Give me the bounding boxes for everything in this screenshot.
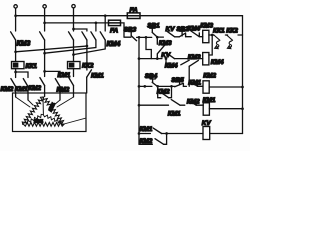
svg-text:КМ2: КМ2 xyxy=(187,99,200,106)
contact KM2 selfhold xyxy=(161,93,168,98)
svg-text:КМ3: КМ3 xyxy=(200,22,213,29)
node phaseC KM4 tap xyxy=(72,28,75,31)
contact KM4 NC rung1 xyxy=(191,31,199,37)
contactor KM4 pole2 xyxy=(91,32,96,40)
node bridge c3 xyxy=(43,70,46,73)
wire c1 into motor xyxy=(15,87,17,98)
svg-text:КМ4: КМ4 xyxy=(165,63,178,70)
contactor KM4 pole3 xyxy=(100,32,105,40)
svg-text:КМ1: КМ1 xyxy=(203,97,216,104)
wire KM4 pole1 reconnect to phase A xyxy=(16,40,87,52)
wire rung2 xyxy=(139,58,203,60)
contact KM1 selfhold rung4 xyxy=(171,100,180,106)
wire phase B mid xyxy=(44,40,46,71)
svg-text:КМ3: КМ3 xyxy=(159,40,172,47)
contact KM2 c1 xyxy=(11,79,16,87)
node reconnect A xyxy=(14,50,17,53)
node KM2 branch join xyxy=(165,132,168,135)
wire KV coil to rail xyxy=(210,133,243,135)
contact KM4 aux xyxy=(166,60,189,65)
svg-text:КМ4: КМ4 xyxy=(107,41,121,48)
svg-text:КК2: КК2 xyxy=(82,62,94,69)
wire bridge c1-c2 xyxy=(16,72,28,78)
motor winding right side zigzag xyxy=(43,97,64,125)
contact KM1 NC rung3 xyxy=(189,81,198,87)
contact KM2 c3 xyxy=(40,78,45,86)
svg-text:КМ1: КМ1 xyxy=(188,80,201,87)
node rung2 selfhold xyxy=(156,57,159,60)
contact KK1 xyxy=(214,35,220,49)
wire phase B vertical top xyxy=(44,8,46,31)
wire dropper B jog xyxy=(146,37,151,58)
thermal relay KK1 heater xyxy=(12,62,25,69)
contact KM1 c6 xyxy=(87,70,92,78)
button SB5 contact xyxy=(175,83,184,87)
wire c2 to winding xyxy=(28,100,33,105)
contact KV rung2 xyxy=(166,52,175,58)
wire rung1 coil to rail xyxy=(209,34,243,36)
wire KM2 branch xyxy=(139,134,167,145)
wire KM4 aux stub xyxy=(165,59,167,65)
wire phase A mid xyxy=(15,40,17,62)
wire bus line2 xyxy=(45,23,124,37)
branch KM2 selfhold xyxy=(158,86,172,97)
wire KM4 pole1 down xyxy=(86,46,88,70)
node KM2 selfhold left xyxy=(156,85,159,88)
svg-text:КМ2: КМ2 xyxy=(140,138,153,145)
wire c4 into motor xyxy=(59,87,61,101)
node after SB1 xyxy=(156,36,159,39)
motor enclosure box xyxy=(13,93,87,132)
button SB3 plunger xyxy=(129,32,134,36)
thermal relay KK2 heater xyxy=(68,62,81,69)
contactor KM3 pole1 xyxy=(11,32,16,40)
wire KM4 column3 top xyxy=(104,16,106,31)
contact KM1 c2 xyxy=(23,79,28,87)
contact KM1 c4 xyxy=(55,79,60,87)
node KM4 pole1 T xyxy=(86,45,89,48)
motor winding left side zigzag xyxy=(22,97,43,125)
wire c1 to winding xyxy=(16,97,30,107)
wire phase C vertical top xyxy=(73,8,75,31)
svg-text:КМ1: КМ1 xyxy=(91,72,104,79)
terminal C xyxy=(72,5,75,8)
svg-text:КМ2: КМ2 xyxy=(28,85,41,92)
svg-text:КК1: КК1 xyxy=(213,27,225,34)
wire rung1 after SB1 xyxy=(157,36,202,38)
wire rung3 xyxy=(139,85,203,87)
svg-text:FA: FA xyxy=(110,27,119,34)
wire right rail xyxy=(242,16,244,134)
node line2-phaseB xyxy=(43,22,46,25)
node KM2 selfhold right xyxy=(170,85,173,88)
button SB3 contact xyxy=(131,36,136,41)
wire c5 to winding xyxy=(57,97,74,107)
contactor KM4 pole1 xyxy=(82,32,87,40)
node rung4 dropper A xyxy=(138,104,141,107)
node KM2 rail xyxy=(241,86,244,89)
button SB4 plunger xyxy=(150,79,155,83)
contactor KM3 pole2 xyxy=(40,32,45,40)
wire phase A below KK1 xyxy=(15,69,17,78)
coil KM4 xyxy=(203,53,209,65)
svg-text:КМ2: КМ2 xyxy=(1,86,14,93)
wire c6 into motor xyxy=(86,77,88,93)
coil KM2 xyxy=(203,81,209,93)
wire node line xyxy=(124,36,152,38)
wire KM2 coil to rail xyxy=(209,86,242,88)
node KM1 rail xyxy=(241,107,244,110)
svg-text:SB3: SB3 xyxy=(124,27,137,34)
node KM4 aux xyxy=(165,57,168,60)
svg-text:КМ3: КМ3 xyxy=(17,40,31,47)
contactor KM3 pole3 xyxy=(69,32,74,40)
wire bridge c3-c4 xyxy=(45,71,60,77)
svg-text:КМ1: КМ1 xyxy=(15,86,28,93)
node KM4 return xyxy=(211,34,214,37)
node rung2 dropper A xyxy=(138,57,141,60)
button SB5 plunger xyxy=(177,80,182,84)
node dropper A top xyxy=(138,36,141,39)
wire KM4 pole2 reconnect to phase B xyxy=(45,40,96,53)
svg-text:КМ2: КМ2 xyxy=(203,73,216,80)
button SB4 contact xyxy=(152,82,157,86)
svg-text:КМ4: КМ4 xyxy=(211,59,224,66)
coil KM3 xyxy=(203,30,209,42)
motor star spoke up xyxy=(42,97,44,115)
node line1 control tap xyxy=(104,14,107,17)
svg-text:SB5: SB5 xyxy=(171,77,184,84)
node reconnect B xyxy=(43,52,46,55)
motor star spoke right xyxy=(43,115,64,125)
wire KM4 tap from phase C xyxy=(74,29,87,31)
motor winding bottom zigzag xyxy=(24,122,65,126)
terminal B xyxy=(43,5,46,8)
node reconnect C xyxy=(72,53,75,56)
fuse FA2 xyxy=(109,20,121,25)
wire c2 into motor xyxy=(27,87,29,101)
wire c4 to winding xyxy=(54,100,60,105)
contact KM1 KV-rung xyxy=(153,128,162,134)
wire dropper A xyxy=(138,37,140,144)
svg-text:КК2: КК2 xyxy=(226,27,238,34)
node KV rung dropper A xyxy=(138,132,141,135)
button SB1 contact xyxy=(152,32,157,37)
svg-text:КМ1: КМ1 xyxy=(168,110,181,117)
button SB1 plunger xyxy=(150,28,155,32)
wire KV rung xyxy=(139,133,203,135)
wire c3 into motor (apex) xyxy=(44,86,46,97)
motor star spoke left xyxy=(24,114,44,124)
wire KM1 coil to rail xyxy=(209,108,242,110)
contact KM2 NC rung4 xyxy=(188,100,197,106)
contact KK2 xyxy=(227,35,233,49)
wire bus line1 xyxy=(16,15,243,17)
svg-text:SB1: SB1 xyxy=(147,22,160,29)
wire c5 into motor xyxy=(73,86,75,98)
contact KV rung1 xyxy=(166,31,175,37)
button SB2 plunger xyxy=(180,31,185,36)
svg-text:KV: KV xyxy=(202,120,212,127)
svg-text:КМ1: КМ1 xyxy=(140,126,153,133)
svg-text:SB4: SB4 xyxy=(145,73,158,80)
svg-text:КМ2: КМ2 xyxy=(157,88,170,95)
node line2 KM4 tap xyxy=(95,22,98,25)
node rung3 dropper A xyxy=(138,85,141,88)
fuse FA1 xyxy=(127,13,140,19)
contact KM3 selfhold vertical xyxy=(157,37,164,58)
button SB2 contact xyxy=(179,33,185,37)
wire phase A vertical top xyxy=(15,8,17,31)
contact KM2 KV-rung xyxy=(155,139,164,145)
svg-text:КМ4: КМ4 xyxy=(188,25,201,32)
svg-text:KV: KV xyxy=(166,26,176,33)
node dropper B top xyxy=(145,36,148,39)
contact KM2 c5 xyxy=(69,78,74,86)
wire phase C mid xyxy=(73,40,75,62)
svg-text:КК1: КК1 xyxy=(26,63,38,70)
svg-text:FA: FA xyxy=(130,7,139,14)
terminal A xyxy=(14,5,17,8)
node line1-phaseA xyxy=(14,14,17,17)
contact KM3 from below xyxy=(189,60,198,66)
coil KM1 xyxy=(203,103,209,115)
node bridge c1 xyxy=(14,71,17,74)
wire KM3-below vertical xyxy=(188,66,190,86)
wire rung4 xyxy=(139,104,203,106)
wire KM4 coil return xyxy=(209,36,212,55)
wire c6 inside box xyxy=(64,93,86,124)
coil KV xyxy=(203,127,210,140)
wire phase C below KK2 xyxy=(73,69,75,77)
svg-text:КМ1: КМ1 xyxy=(34,119,44,124)
wire phase B below xyxy=(44,71,46,76)
wire KM4 pole3 reconnect to phase C xyxy=(74,40,106,55)
wire KM4 column2 top xyxy=(95,23,97,31)
